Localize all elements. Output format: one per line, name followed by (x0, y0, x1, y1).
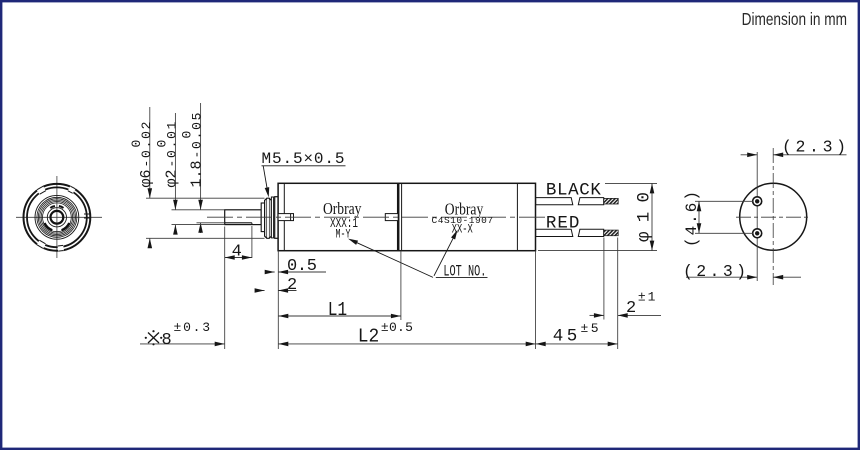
extension line shaft bottom (172, 224, 225, 226)
dimension 2 +-1 (strip length) (590, 314, 604, 316)
svg-text:RED: RED (546, 214, 580, 234)
dimension line phi6 vertical (149, 107, 151, 198)
front view clip ring circle (47, 208, 66, 227)
dimension L2 +-0.5 (278, 343, 535, 345)
extension line flat end (251, 226, 253, 258)
label underline (436, 277, 488, 279)
svg-text:L2: L2 (358, 326, 380, 348)
front view rim notch bottom-left (36, 240, 46, 249)
leader to motor marking (434, 238, 454, 276)
leader to gearhead marking (355, 242, 433, 278)
extension line wire strip start (603, 238, 605, 320)
front view right keyway lines (84, 213, 90, 215)
dimension label phi2 -0.01/0 (rotated) (154, 121, 180, 187)
svg-text:Orbray: Orbray (323, 199, 362, 218)
threaded boss M5.5 (265, 198, 272, 238)
front view snap-ring upper ears (50, 206, 55, 208)
front view bearing circle cluster (37, 197, 77, 237)
motor rear cap line (516, 183, 518, 250)
seam thin line (401, 183, 403, 250)
terminal pin extension line (756, 152, 758, 281)
front hub tab inner line (290, 214, 292, 221)
dimension 45 +-5 (536, 343, 618, 345)
black wire stripped tip (hatched) (604, 198, 619, 204)
svg-text:±0.3: ±0.3 (174, 320, 211, 335)
mounting flange plate B (275, 197, 278, 239)
svg-text:±0.5: ±0.5 (381, 320, 413, 335)
gearhead/motor seam thick line (397, 183, 400, 250)
extension line body bottom (538, 250, 657, 252)
svg-text:(4.6): (4.6) (683, 191, 701, 247)
extension line shaft top (172, 209, 225, 211)
dimension *8 +-0.3 (140, 343, 225, 345)
svg-text:φ2: φ2 (163, 170, 180, 188)
extension line shaft tip (224, 227, 226, 350)
front view rim notch bottom (57, 245, 64, 252)
upper terminal pin (753, 197, 762, 206)
svg-text:(2.3): (2.3) (683, 262, 746, 281)
svg-text:0.5: 0.5 (287, 257, 317, 276)
svg-text:M5.5×0.5: M5.5×0.5 (262, 150, 345, 168)
extension line collar bottom (146, 237, 265, 239)
dimension label 1.8 -0.05/0 (rotated) (180, 113, 206, 188)
extension line body top (605, 182, 657, 184)
dimension (2.3) top (741, 154, 758, 156)
extension line wire end (617, 238, 619, 350)
front view rim notch top-left (36, 185, 46, 194)
svg-text:φ6: φ6 (138, 170, 155, 188)
dimension line 1.8 vertical (200, 103, 202, 210)
svg-text:(2.3): (2.3) (782, 138, 846, 157)
red wire segment 2 (578, 229, 603, 236)
dimension (4.6) (695, 200, 753, 202)
dimension 2 (boss length) (256, 290, 265, 292)
lower terminal pin (753, 229, 762, 238)
gearhead front inner line (283, 183, 285, 250)
boss face line 1 (266, 199, 268, 238)
front view rim notch top-right (68, 185, 76, 193)
extension line flat bottom (197, 222, 225, 224)
svg-text:±1: ±1 (638, 290, 656, 305)
red wire segment 1 (536, 229, 573, 236)
svg-text:2: 2 (287, 276, 297, 295)
svg-text:0: 0 (129, 140, 144, 148)
shaft D-cut step (251, 223, 253, 225)
reference mark (kome) (148, 333, 159, 344)
output shaft (225, 210, 262, 225)
extension line gear seam (400, 251, 402, 320)
shaft D-cut flat line (225, 222, 252, 224)
motor body outline (278, 183, 535, 250)
front view shaft circle (bold) (51, 211, 64, 224)
extension line motor rear (535, 251, 537, 349)
svg-text:φ10: φ10 (635, 192, 655, 242)
boss face line 2 (268, 199, 270, 238)
rear view case circle (740, 183, 807, 250)
front view gear plate circle (35, 195, 79, 239)
svg-text:0: 0 (154, 140, 169, 148)
svg-text:1.8: 1.8 (189, 161, 206, 188)
svg-text:Dimension in mm: Dimension in mm (742, 10, 847, 29)
svg-text:8: 8 (162, 331, 172, 350)
front view outer case circle (24, 184, 91, 251)
svg-text:0: 0 (180, 131, 195, 139)
svg-text:2: 2 (626, 299, 636, 318)
front view snap-ring lower lobes (44, 223, 52, 230)
front view crosshair vertical (56, 176, 58, 258)
leader line to boss (263, 166, 268, 193)
dimension 0.5 (265, 271, 275, 273)
black wire segment 2 (578, 198, 603, 205)
svg-text:BLACK: BLACK (546, 181, 601, 201)
dimension line phi2 vertical (174, 113, 176, 210)
svg-text:M-Y: M-Y (336, 226, 351, 241)
rear view vertical centerline (772, 148, 774, 285)
dimension 4 (flat length) (225, 257, 252, 259)
seam pinion tab on centerline (385, 214, 398, 221)
front view crosshair horizontal (16, 216, 102, 218)
front view inner case circle (27, 187, 87, 247)
black wire segment 1 (536, 198, 573, 205)
front hub tab on centerline (278, 214, 293, 221)
svg-text:4: 4 (232, 243, 242, 262)
extension line collar top (146, 197, 265, 199)
red wire stripped tip (hatched) (604, 230, 619, 236)
collar plate A (271, 197, 273, 238)
dimension (2.3) bottom (686, 276, 757, 278)
rear view horizontal centerline (736, 216, 810, 218)
label underline (262, 165, 346, 167)
shaft washer (261, 203, 264, 232)
dimension label phi6 -0.02/0 (rotated) (129, 122, 155, 188)
extension line mounting face (277, 251, 279, 349)
svg-text:L1: L1 (328, 299, 348, 321)
dimension L1 (278, 315, 401, 317)
dimension line phi10 (651, 183, 653, 250)
main centerline (207, 216, 549, 218)
